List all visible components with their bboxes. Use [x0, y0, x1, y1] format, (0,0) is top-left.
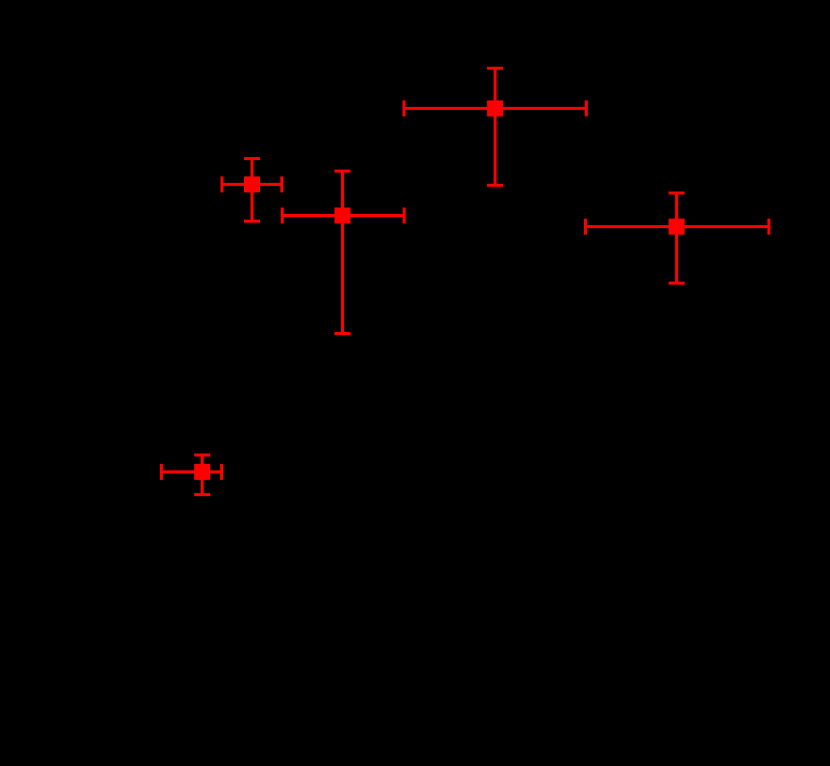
data point 5 error bars [161, 455, 221, 495]
data point 2 error bars [282, 171, 404, 333]
data point 1 error bars [222, 159, 282, 222]
data point 3 error bars [404, 68, 586, 185]
data point 1 marker [244, 176, 260, 192]
data point 4 marker [669, 219, 685, 235]
data point 2 marker [335, 208, 351, 224]
data point 5 marker [194, 464, 210, 480]
data point 4 error bars [585, 193, 769, 283]
data point 3 marker [487, 100, 503, 116]
